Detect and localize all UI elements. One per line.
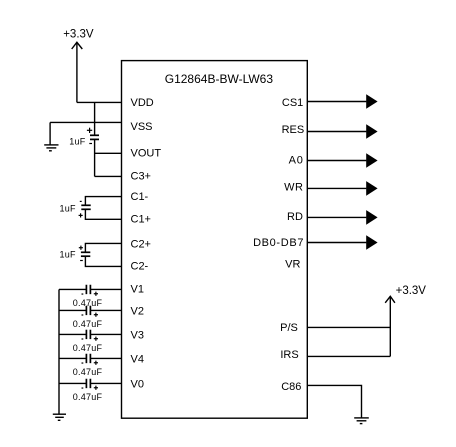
svg-text:RD: RD xyxy=(287,211,303,223)
wire V2 left xyxy=(59,309,86,311)
svg-text:0.47uF: 0.47uF xyxy=(73,343,103,353)
capacitor C2 1uF (polarized, vertical) xyxy=(79,246,91,261)
wire IRS xyxy=(307,355,390,357)
wire C1- xyxy=(85,197,121,206)
svg-text:C1+: C1+ xyxy=(131,214,152,226)
capacitor CV1 0.47uF (horizontal) xyxy=(82,285,99,296)
svg-text:0.47uF: 0.47uF xyxy=(73,392,103,402)
svg-text:C2-: C2- xyxy=(131,260,149,272)
wire VOUT xyxy=(95,152,122,154)
capacitor CV2 0.47uF (horizontal) xyxy=(82,306,99,317)
wire RD with arrow xyxy=(307,210,377,225)
svg-text:V0: V0 xyxy=(131,378,144,390)
wire V4 right xyxy=(90,357,121,359)
svg-text:IRS: IRS xyxy=(280,349,298,361)
wire V4 left xyxy=(59,357,86,359)
svg-text:0.47uF: 0.47uF xyxy=(73,367,103,377)
wire C2- xyxy=(85,256,121,266)
wire C1+ xyxy=(85,209,121,219)
svg-text:+3.3V: +3.3V xyxy=(396,285,427,297)
wire VDD xyxy=(77,101,122,103)
wire P/S xyxy=(307,326,390,328)
wire C3+ xyxy=(95,175,122,177)
capacitor CV3 0.47uF (horizontal) xyxy=(82,330,99,341)
wire V3 right xyxy=(90,333,121,335)
wire V3 left xyxy=(59,333,86,335)
svg-text:RES: RES xyxy=(282,124,305,136)
wire C86 xyxy=(307,385,361,417)
wire V0 right xyxy=(90,382,121,384)
power +3.3V symbol (right) xyxy=(385,296,395,356)
svg-text:1uF: 1uF xyxy=(60,249,77,259)
svg-text:0.47uF: 0.47uF xyxy=(73,298,103,308)
svg-text:C3+: C3+ xyxy=(131,170,152,182)
wire VDD to capacitor C3 xyxy=(94,102,96,135)
wire CS1 with arrow xyxy=(307,94,377,109)
ground (C86) xyxy=(354,418,369,424)
ground (VSS) xyxy=(44,122,58,150)
svg-text:V4: V4 xyxy=(131,353,144,365)
svg-text:DB0-DB7: DB0-DB7 xyxy=(253,237,304,249)
svg-text:V2: V2 xyxy=(131,306,144,318)
svg-text:1uF: 1uF xyxy=(60,203,77,213)
wire C2+ xyxy=(85,243,121,252)
wire V bus xyxy=(58,289,60,414)
svg-text:C86: C86 xyxy=(281,381,301,393)
svg-text:1uF: 1uF xyxy=(69,137,86,147)
svg-text:+3.3V: +3.3V xyxy=(63,28,94,40)
svg-text:VOUT: VOUT xyxy=(131,148,162,160)
power +3.3V symbol (left) xyxy=(72,42,83,102)
wire WR with arrow xyxy=(307,181,377,196)
svg-text:P/S: P/S xyxy=(280,322,298,334)
svg-text:A0: A0 xyxy=(289,154,304,166)
svg-text:VR: VR xyxy=(285,259,300,271)
svg-text:CS1: CS1 xyxy=(282,97,303,109)
capacitor C1 1uF (polarized, vertical) xyxy=(79,201,91,217)
wire A0 with arrow xyxy=(307,153,377,168)
svg-text:G12864B-BW-LW63: G12864B-BW-LW63 xyxy=(165,72,274,86)
svg-text:WR: WR xyxy=(284,182,303,194)
svg-text:VDD: VDD xyxy=(131,97,154,109)
op-amp U1 module box G12864B-BW-LW63 xyxy=(122,61,308,419)
wire V1 right xyxy=(90,288,121,290)
capacitor C3 1uF (polarized, vertical) xyxy=(87,128,99,144)
capacitor CV4 0.47uF (horizontal) xyxy=(82,354,99,365)
svg-text:V3: V3 xyxy=(131,329,144,341)
wire V2 right xyxy=(90,309,121,311)
svg-text:C1-: C1- xyxy=(131,191,149,203)
wire DB0-DB7 with arrow xyxy=(307,235,377,250)
wire RES with arrow xyxy=(307,124,377,139)
wire VSS xyxy=(50,121,121,123)
wire capacitor C3 to C3+ corner xyxy=(94,139,96,176)
ground (V bus) xyxy=(53,414,66,420)
svg-text:VSS: VSS xyxy=(131,121,153,133)
svg-text:C2+: C2+ xyxy=(131,239,152,251)
wire V0 left xyxy=(59,382,86,384)
wire V1 left xyxy=(59,288,86,290)
svg-text:0.47uF: 0.47uF xyxy=(73,319,103,329)
svg-text:V1: V1 xyxy=(131,284,144,296)
capacitor CV5 0.47uF (horizontal) xyxy=(82,379,99,390)
